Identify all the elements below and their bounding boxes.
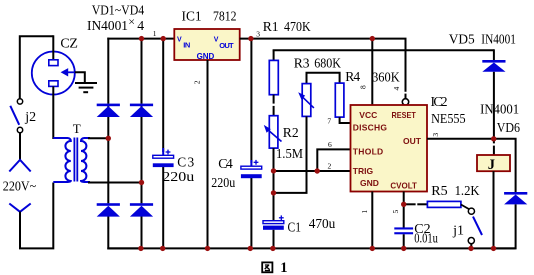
IC1 7812 box [174,29,239,60]
wire R5 to j1 [461,205,469,210]
svg-text:T: T [73,121,81,136]
wire R1 top feed [273,50,275,60]
svg-text:2: 2 [193,80,202,84]
svg-text:1: 1 [360,210,369,214]
wire top-left 220V loop [20,36,54,98]
svg-text:1.2K: 1.2K [455,184,480,199]
svg-text:IC2: IC2 [431,94,448,109]
wire socket bottom prong down to transformer [52,86,54,139]
resistor R1 [269,60,278,94]
wire relay to rail [493,171,495,248]
diode VD5 [482,60,505,72]
svg-text:CZ: CZ [60,37,78,52]
svg-text:8: 8 [359,85,368,89]
wire j1 to rail [470,244,472,249]
wire secondary top to bridge [88,137,108,139]
svg-text:J: J [488,157,495,173]
svg-text:DISCHG: DISCHG [353,122,388,132]
AC source terminal top chevron [9,160,30,172]
RESET bubble [402,99,408,105]
svg-text:VD6: VD6 [497,121,520,136]
wire THOLD link [317,149,350,171]
svg-text:VD1~VD4: VD1~VD4 [92,3,145,18]
diode VD6 [504,192,527,204]
capacitor C2 [394,227,413,234]
svg-text:C4: C4 [218,156,233,171]
wire CVOLT to R5 [404,203,416,205]
capacitor C1 [263,215,284,229]
svg-text:R5: R5 [431,184,447,199]
transformer T primary winding [53,138,71,182]
svg-text:IN4001: IN4001 [87,18,128,33]
svg-text:TRIG: TRIG [353,166,374,176]
diode VD1 [97,104,120,117]
wire rectifier top rail to IC1 [107,38,174,40]
svg-text:OUT: OUT [219,41,234,50]
wire TRIG [274,170,351,172]
svg-text:CVOLT: CVOLT [390,180,417,190]
svg-text:680K: 680K [314,55,341,70]
wire VCC column [371,39,373,105]
svg-text:GND: GND [360,178,379,188]
svg-text:1.5M: 1.5M [276,147,303,162]
svg-text:4: 4 [137,18,144,33]
wire R3 R4 top bracket [307,73,340,84]
ground symbol [75,83,97,92]
svg-text:3: 3 [256,29,260,38]
svg-text:OUT: OUT [403,136,422,146]
svg-text:VD5: VD5 [449,32,475,47]
resistor R3 (adjustable) [298,84,314,117]
svg-text:0.01u: 0.01u [414,232,438,247]
svg-text:360K: 360K [372,69,400,84]
relay J box [477,155,510,171]
wire resistor top rail (y=50.3) [273,49,494,51]
wire OUT pin [427,138,494,140]
svg-text:470K: 470K [284,19,311,34]
svg-text:IC1: IC1 [182,8,202,23]
svg-text:R3: R3 [294,55,310,70]
svg-text:THOLD: THOLD [353,147,383,157]
switch j1 [468,208,482,244]
svg-text:7: 7 [327,117,331,126]
svg-text:6: 6 [328,140,332,149]
wire C3 column [162,38,164,249]
socket CZ circle [32,52,75,95]
svg-text:j1: j1 [452,224,464,239]
svg-text:j2: j2 [24,110,36,125]
wire R1 to R2 [273,95,275,104]
IC2 pin names [353,110,422,191]
svg-text:2: 2 [328,162,332,171]
svg-text:4: 4 [392,87,401,91]
wire IC1 out to 555 top rail [240,39,406,92]
wire bridge left branch [108,38,141,249]
svg-text:5: 5 [391,210,400,214]
svg-text:IN4001: IN4001 [481,32,516,47]
socket top prong [49,60,58,66]
transformer T secondary winding [81,138,90,182]
svg-text:R2: R2 [283,125,299,140]
svg-text:RESET: RESET [392,110,417,120]
svg-text:3: 3 [431,133,440,137]
wire OUT node to VD6 [494,139,516,192]
svg-text:470u: 470u [309,217,336,232]
wire VD6 to rail [494,204,516,248]
wire VD5 column [493,49,495,155]
socket bottom prong [49,81,58,87]
wire arrow to ground [75,72,85,83]
svg-text:220V~: 220V~ [3,178,37,193]
svg-text:R4: R4 [345,69,360,84]
resistor R5 [427,201,461,207]
svg-text:×: × [128,15,135,29]
wire j2 to AC terminal [19,133,21,160]
wire R2 bottom to C1 [273,148,275,221]
wire ground rail [107,247,515,249]
svg-text:1: 1 [153,29,157,38]
svg-text:VCC: VCC [359,110,377,120]
wire GND pin column [371,192,373,249]
IC2 NE555 box [351,105,428,192]
capacitor C3 [153,148,174,167]
IC1 pin names [177,37,234,62]
wire C4 column [250,38,252,249]
svg-text:IN: IN [183,40,190,49]
wire R3 bottom to C1 node [274,116,307,192]
caption tu-1 glyph [262,262,272,272]
wire C1 to ground rail [273,230,275,249]
transformer core [74,138,77,182]
svg-text:R1: R1 [263,19,279,34]
wire bridge right branch [141,38,143,250]
wire 220V loop bottom [20,183,53,249]
wire C2 to rail [403,234,405,248]
switch j2 [10,99,22,133]
svg-text:220u: 220u [211,175,235,190]
capacitor C4 [241,160,262,178]
socket earth arrow prong [61,68,75,76]
AC source terminal bottom chevron [9,204,30,212]
svg-text:220u: 220u [162,169,194,184]
svg-text:7812: 7812 [213,8,237,23]
wire IC1 GND column [207,60,209,248]
wire R4 bottom to DISCHG [340,117,351,123]
wire into socket top [52,35,54,60]
svg-text:C1: C1 [288,220,302,235]
svg-text:C3: C3 [177,154,194,169]
svg-text:V: V [177,37,182,44]
svg-text:V: V [214,37,219,44]
svg-text:IN4001: IN4001 [480,103,519,118]
wire secondary bottom to bridge [88,182,142,184]
diode VD2 [130,104,153,117]
svg-text:GND: GND [197,52,215,61]
diode VD4 (lower right) [130,203,153,216]
resistor R4 [335,83,344,117]
svg-text:NE555: NE555 [431,112,466,127]
wire CVOLT column [403,192,405,228]
diode VD3 (lower left) [97,203,120,216]
svg-text:1: 1 [280,260,287,275]
resistor R2 (adjustable) [264,116,282,148]
